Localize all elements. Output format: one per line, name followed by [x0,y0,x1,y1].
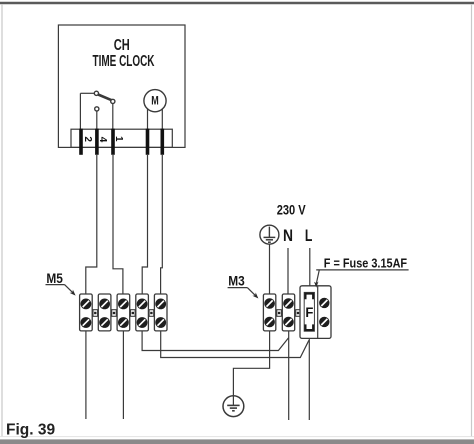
svg-text:CH: CH [114,37,130,54]
svg-text:230 V: 230 V [277,201,307,217]
svg-text:M5: M5 [46,270,63,286]
svg-text:Fig. 39: Fig. 39 [6,421,55,438]
svg-text:M3: M3 [228,272,245,288]
svg-text:N: N [283,227,293,245]
svg-text:F = Fuse 3.15AF: F = Fuse 3.15AF [324,255,407,270]
svg-text:L: L [305,227,313,245]
svg-text:F: F [305,304,313,320]
svg-text:TIME CLOCK: TIME CLOCK [93,53,155,70]
svg-text:4: 4 [97,137,108,143]
svg-text:2: 2 [82,136,93,142]
svg-text:M: M [151,95,159,107]
svg-text:1: 1 [113,136,124,142]
